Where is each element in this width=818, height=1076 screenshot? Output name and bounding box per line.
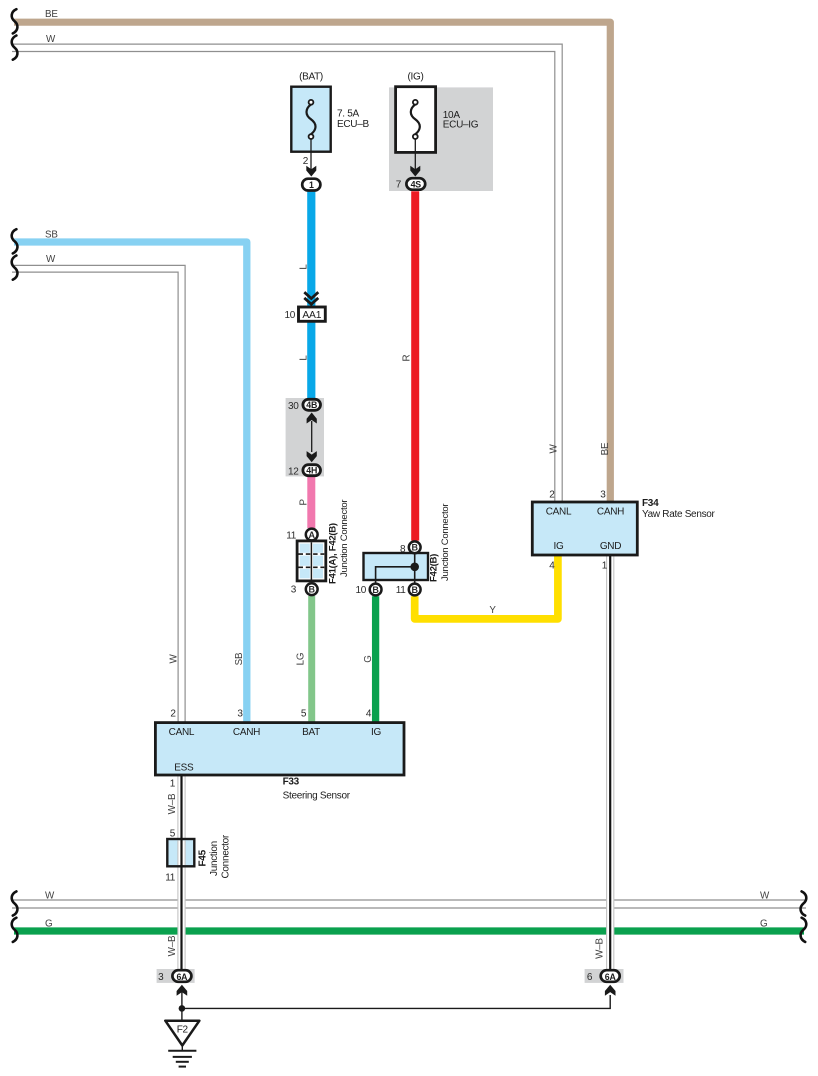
svg-text:CANL: CANL	[546, 506, 572, 517]
svg-text:11: 11	[165, 873, 176, 884]
svg-text:GND: GND	[600, 541, 621, 552]
svg-text:B: B	[411, 543, 418, 553]
svg-text:6A: 6A	[176, 972, 188, 982]
svg-text:W: W	[46, 34, 56, 45]
svg-text:(BAT): (BAT)	[299, 72, 323, 83]
svg-text:7. 5A: 7. 5A	[337, 109, 359, 120]
svg-text:30: 30	[288, 401, 299, 412]
svg-text:CANL: CANL	[169, 727, 195, 738]
svg-text:SB: SB	[45, 230, 58, 241]
svg-text:L: L	[298, 355, 309, 361]
svg-text:B: B	[308, 585, 315, 595]
svg-text:6: 6	[587, 972, 593, 983]
svg-text:Junction Connector: Junction Connector	[339, 499, 350, 577]
svg-text:W–B: W–B	[595, 938, 606, 959]
svg-text:W: W	[548, 444, 559, 454]
svg-text:BE: BE	[45, 9, 58, 20]
svg-text:AA1: AA1	[302, 310, 321, 321]
svg-text:4: 4	[366, 709, 372, 720]
svg-text:IG: IG	[554, 541, 564, 552]
svg-text:3: 3	[600, 490, 606, 501]
svg-text:11: 11	[286, 531, 297, 542]
svg-text:3: 3	[237, 709, 243, 720]
svg-text:2: 2	[549, 490, 555, 501]
svg-text:G: G	[760, 919, 767, 930]
svg-text:W: W	[760, 891, 770, 902]
svg-text:12: 12	[288, 467, 299, 478]
svg-text:ECU–B: ECU–B	[337, 119, 369, 130]
svg-text:IG: IG	[371, 727, 381, 738]
svg-text:W: W	[169, 654, 180, 664]
svg-text:BAT: BAT	[302, 727, 320, 738]
svg-text:F42(B): F42(B)	[429, 554, 440, 582]
svg-text:ECU–IG: ECU–IG	[443, 119, 479, 130]
svg-text:R: R	[401, 354, 412, 361]
svg-text:F34: F34	[642, 498, 659, 509]
svg-text:3: 3	[291, 585, 297, 596]
svg-text:W–B: W–B	[167, 935, 178, 956]
svg-text:Junction Connector: Junction Connector	[440, 503, 451, 581]
svg-text:BE: BE	[600, 442, 611, 455]
svg-text:6A: 6A	[605, 972, 617, 982]
svg-text:Yaw Rate Sensor: Yaw Rate Sensor	[642, 509, 716, 520]
svg-text:A: A	[308, 530, 315, 540]
svg-text:B: B	[411, 585, 418, 595]
svg-text:L: L	[298, 264, 309, 270]
svg-text:5: 5	[301, 709, 307, 720]
svg-text:F2: F2	[177, 1025, 189, 1036]
svg-text:P: P	[298, 498, 309, 505]
svg-text:F33: F33	[283, 777, 300, 788]
svg-text:1: 1	[602, 561, 608, 572]
svg-text:1: 1	[309, 180, 314, 190]
svg-text:Y: Y	[489, 605, 496, 616]
svg-text:3: 3	[158, 972, 164, 983]
svg-text:W: W	[45, 891, 55, 902]
svg-text:Connector: Connector	[221, 834, 232, 878]
svg-text:G: G	[363, 655, 374, 662]
svg-text:F45: F45	[198, 849, 209, 866]
svg-text:W: W	[46, 254, 56, 265]
svg-text:F41(A), F42(B): F41(A), F42(B)	[328, 523, 339, 584]
svg-text:(IG): (IG)	[407, 72, 423, 83]
svg-text:CANH: CANH	[233, 727, 260, 738]
svg-text:1: 1	[170, 779, 176, 790]
svg-text:4H: 4H	[306, 466, 317, 476]
svg-text:11: 11	[396, 585, 407, 596]
svg-text:SB: SB	[234, 652, 245, 665]
svg-text:Steering Sensor: Steering Sensor	[283, 791, 351, 802]
svg-text:W–B: W–B	[167, 793, 178, 814]
svg-text:4: 4	[549, 561, 555, 572]
svg-text:8: 8	[400, 544, 406, 555]
svg-text:4S: 4S	[411, 179, 422, 189]
svg-text:10: 10	[355, 585, 366, 596]
svg-text:2: 2	[303, 156, 309, 167]
svg-text:ESS: ESS	[174, 762, 194, 773]
svg-text:G: G	[45, 919, 52, 930]
svg-text:LG: LG	[296, 653, 307, 666]
svg-text:B: B	[372, 585, 379, 595]
svg-text:2: 2	[170, 709, 176, 720]
svg-text:10: 10	[284, 310, 295, 321]
svg-text:CANH: CANH	[597, 506, 624, 517]
svg-text:7: 7	[396, 180, 402, 191]
svg-text:Junction: Junction	[209, 841, 220, 876]
svg-text:4B: 4B	[306, 400, 317, 410]
